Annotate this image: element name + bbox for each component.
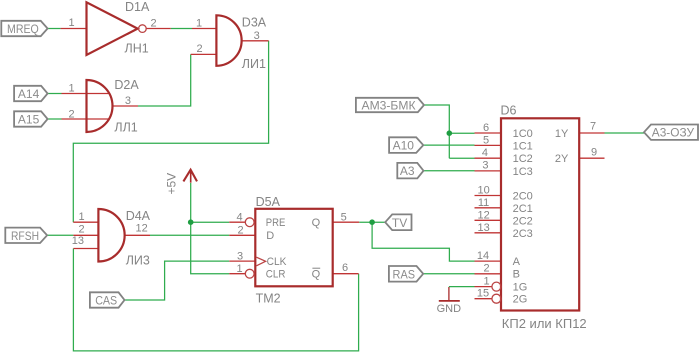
svg-text:CLK: CLK xyxy=(267,256,287,268)
svg-text:2: 2 xyxy=(483,263,489,275)
svg-text:1G: 1G xyxy=(513,282,528,294)
svg-text:ЛИ1: ЛИ1 xyxy=(242,57,266,71)
svg-text:2C1: 2C1 xyxy=(513,203,533,215)
svg-text:RFSH: RFSH xyxy=(11,229,39,243)
svg-text:1: 1 xyxy=(68,17,74,29)
svg-text:PRE: PRE xyxy=(266,217,286,229)
svg-text:1: 1 xyxy=(196,18,202,30)
svg-text:3: 3 xyxy=(125,95,131,107)
svg-text:КП2 или КП12: КП2 или КП12 xyxy=(502,316,587,331)
svg-text:5: 5 xyxy=(483,134,489,146)
svg-text:13: 13 xyxy=(72,235,84,247)
svg-text:D4A: D4A xyxy=(126,209,151,223)
svg-text:RAS: RAS xyxy=(393,267,416,281)
svg-text:2: 2 xyxy=(78,224,84,236)
svg-text:A14: A14 xyxy=(18,87,40,101)
svg-text:2: 2 xyxy=(238,224,244,236)
svg-text:3: 3 xyxy=(254,30,260,42)
svg-text:D: D xyxy=(266,230,274,242)
svg-text:1: 1 xyxy=(78,211,84,223)
svg-text:A15: A15 xyxy=(18,112,40,126)
svg-text:CAS: CAS xyxy=(95,294,117,308)
svg-text:CLR: CLR xyxy=(266,268,286,280)
svg-text:А3-ОЗУ: А3-ОЗУ xyxy=(652,126,695,140)
svg-text:6: 6 xyxy=(483,122,489,134)
svg-text:12: 12 xyxy=(135,223,147,235)
svg-text:GND: GND xyxy=(437,303,462,315)
svg-text:1: 1 xyxy=(68,83,74,95)
svg-text:2: 2 xyxy=(150,17,156,29)
svg-text:2C2: 2C2 xyxy=(513,215,533,227)
svg-text:13: 13 xyxy=(477,222,489,234)
svg-text:2G: 2G xyxy=(513,294,528,306)
svg-text:TM2: TM2 xyxy=(256,291,281,305)
svg-text:3: 3 xyxy=(237,250,243,262)
svg-text:6: 6 xyxy=(342,262,348,274)
svg-text:АМ3-БМК: АМ3-БМК xyxy=(362,99,416,113)
svg-text:1Y: 1Y xyxy=(555,128,569,140)
svg-text:2C0: 2C0 xyxy=(513,190,533,202)
svg-text:14: 14 xyxy=(477,250,489,262)
svg-text:ЛЛ1: ЛЛ1 xyxy=(114,121,137,135)
svg-text:1C0: 1C0 xyxy=(513,128,533,140)
svg-text:1: 1 xyxy=(483,275,489,287)
svg-text:A: A xyxy=(513,256,521,268)
svg-text:4: 4 xyxy=(482,147,488,159)
svg-text:D6: D6 xyxy=(501,103,517,117)
svg-text:2C3: 2C3 xyxy=(513,228,533,240)
svg-text:D3A: D3A xyxy=(242,16,267,30)
svg-text:Q: Q xyxy=(312,268,321,280)
svg-text:A10: A10 xyxy=(393,138,415,152)
svg-text:12: 12 xyxy=(477,209,489,221)
svg-text:2: 2 xyxy=(68,108,74,120)
svg-text:3: 3 xyxy=(482,160,488,172)
svg-text:2Y: 2Y xyxy=(555,153,569,165)
svg-text:Q: Q xyxy=(312,217,321,229)
svg-text:+5V: +5V xyxy=(164,173,178,195)
svg-text:D2A: D2A xyxy=(114,78,139,92)
svg-text:1: 1 xyxy=(236,263,242,275)
svg-text:7: 7 xyxy=(590,121,596,133)
svg-text:15: 15 xyxy=(477,288,489,300)
svg-text:5: 5 xyxy=(341,211,347,223)
svg-text:1C3: 1C3 xyxy=(513,166,533,178)
svg-text:А3: А3 xyxy=(400,164,415,178)
svg-text:1C2: 1C2 xyxy=(513,153,533,165)
svg-text:D5A: D5A xyxy=(256,195,281,209)
svg-text:2: 2 xyxy=(197,43,203,55)
svg-text:ЛН1: ЛН1 xyxy=(125,42,149,56)
svg-text:9: 9 xyxy=(591,147,597,159)
svg-text:1C1: 1C1 xyxy=(513,140,533,152)
svg-text:4: 4 xyxy=(236,211,242,223)
svg-text:ЛИ3: ЛИ3 xyxy=(126,254,150,268)
svg-text:TV: TV xyxy=(392,216,407,230)
svg-text:MREQ: MREQ xyxy=(7,22,39,36)
svg-text:11: 11 xyxy=(478,197,489,209)
svg-text:10: 10 xyxy=(477,184,489,196)
svg-text:B: B xyxy=(513,269,520,281)
svg-text:D1A: D1A xyxy=(125,0,150,14)
